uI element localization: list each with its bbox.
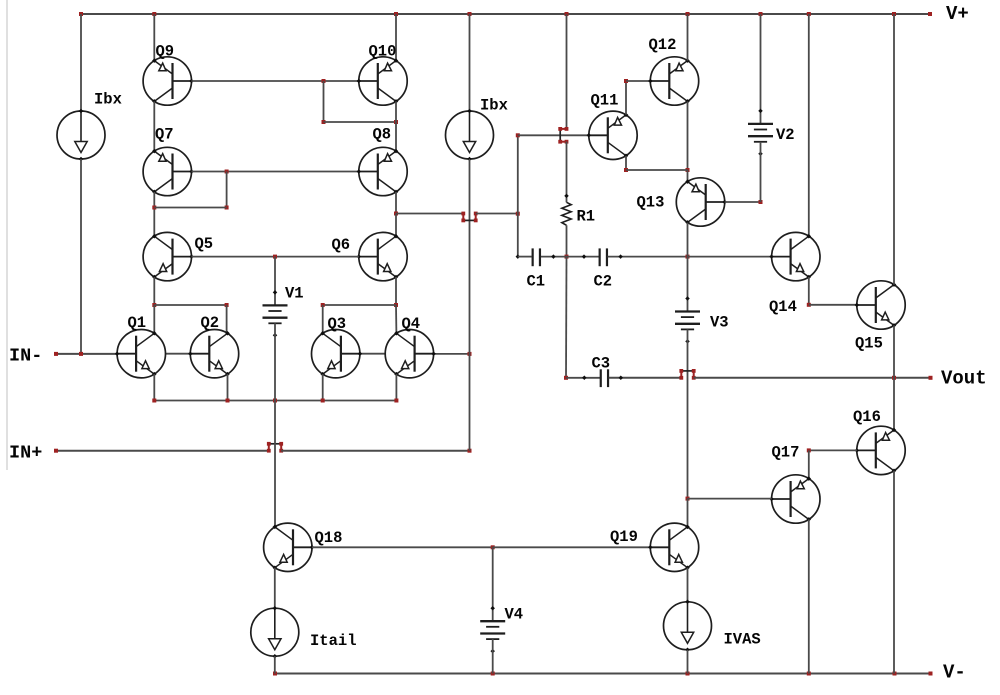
wire rail to V2	[760, 14, 762, 124]
wire Q16 base link	[809, 449, 857, 451]
wire IN- to Q1 base	[56, 353, 117, 355]
junction Q2 collector corner dot	[225, 303, 229, 307]
wire C1 left stub	[518, 256, 532, 258]
label C1	[527, 273, 546, 291]
svg-text:Q19: Q19	[610, 528, 638, 546]
capacitor C3	[601, 369, 608, 387]
svg-text:Ibx: Ibx	[94, 91, 122, 109]
svg-text:Q8: Q8	[373, 126, 392, 144]
wire Q13 collector down	[687, 223, 689, 257]
transistor Q16	[855, 426, 906, 474]
transistor Q11	[587, 111, 638, 159]
wire V3 bottom lead	[687, 329, 689, 498]
transistor Q17	[769, 475, 820, 523]
wire tail column bus to Q18	[274, 401, 276, 528]
wire IN+ column up	[469, 354, 471, 451]
wire mirror to Q7 collector	[154, 207, 226, 209]
transistor Q6	[357, 232, 408, 280]
wire emitter bus	[154, 400, 396, 402]
wire Q3 collector drop	[322, 305, 324, 333]
wire IN+ right segment	[281, 450, 469, 452]
wire Q3 emitter to bus	[322, 374, 324, 400]
label Q3	[328, 315, 347, 333]
transistor Q8	[357, 147, 408, 195]
svg-text:Q15: Q15	[855, 335, 883, 353]
label Q4	[402, 315, 421, 333]
junction Q17 base T dot	[686, 497, 690, 501]
wire Q8 to T	[395, 192, 397, 214]
wire Q7-Q8 base link	[192, 171, 359, 173]
wire V1 top lead	[274, 257, 276, 306]
wire jog to R1	[566, 142, 568, 203]
junction IN- end dot	[54, 352, 58, 356]
wire Q2 collector drop	[226, 305, 228, 333]
capacitor C2	[600, 248, 607, 266]
svg-text:IVAS: IVAS	[724, 631, 761, 649]
battery V3	[675, 296, 700, 343]
emitter bus junction dots	[152, 399, 398, 403]
svg-text:Vout: Vout	[941, 368, 987, 390]
wire Q5Q6 base link left	[192, 256, 276, 258]
wire Q5 to corner	[153, 277, 155, 305]
svg-text:Ibx: Ibx	[480, 97, 508, 115]
wire V2 bottom lead	[760, 142, 762, 202]
junction VAS in T dot	[516, 212, 520, 216]
svg-text:V3: V3	[710, 314, 729, 332]
svg-text:Q18: Q18	[315, 529, 343, 547]
junction V3 top T dot	[686, 255, 690, 259]
wire Q1 to Q2 base link	[166, 353, 191, 355]
wire VAS column down to C1	[517, 214, 519, 257]
junction V4 top T dot	[491, 545, 495, 549]
junction Q7 mirror tap dot	[152, 206, 156, 210]
wire crossover jog over Ibx2 column	[461, 212, 477, 223]
svg-text:V4: V4	[505, 606, 524, 624]
svg-text:C1: C1	[527, 273, 546, 291]
current source Ibx1	[57, 109, 105, 162]
battery V4	[480, 606, 505, 653]
wire C3 left stub	[566, 377, 600, 379]
wire Q4 base to IN+ column	[434, 353, 470, 355]
svg-text:Q16: Q16	[853, 408, 881, 426]
transistor Q4	[385, 330, 436, 378]
junction Vout end dot	[929, 376, 933, 380]
wire to Q13 top	[687, 170, 689, 181]
wire Q16 emitter down to rail	[893, 471, 895, 674]
label V3	[710, 314, 729, 332]
label Q15	[855, 335, 883, 353]
junction drop corner dot	[322, 120, 326, 124]
junction Q14-Q15 corner dot	[807, 303, 811, 307]
transistor Q3	[312, 330, 363, 378]
svg-text:Q10: Q10	[369, 43, 397, 61]
svg-text:V2: V2	[776, 126, 795, 144]
svg-text:V+: V+	[946, 3, 969, 25]
current source Ibx2	[446, 109, 494, 162]
svg-text:Q14: Q14	[769, 298, 797, 316]
svg-text:Itail: Itail	[310, 632, 357, 650]
label Ibx2	[480, 97, 508, 115]
current source Itail	[251, 606, 299, 659]
wire crossover jog R1 column	[558, 127, 568, 144]
wire V4 to Q19 base	[493, 546, 651, 548]
junction mirror corner dot	[225, 206, 229, 210]
svg-text:C3: C3	[592, 355, 611, 373]
wire rail to Q14	[808, 14, 810, 236]
transistor Q15	[855, 281, 906, 329]
svg-text:Q11: Q11	[591, 92, 619, 110]
svg-text:Q12: Q12	[649, 36, 677, 54]
wire Ibx1 bottom to IN- line	[80, 159, 82, 354]
wire crossover jog IN+ over tail column	[267, 442, 283, 453]
wire Q19 emitter to IVAS	[687, 568, 689, 602]
junction C2 left dot	[582, 254, 587, 259]
wire V3 top lead	[687, 257, 689, 312]
junction IN- Ibx1 dot	[79, 352, 83, 356]
wire corner to Q3 collector	[323, 304, 396, 306]
wire IN+ left segment	[56, 450, 269, 452]
wire Q14 to Q15 base	[809, 304, 857, 306]
wire Q14 emitter down	[808, 277, 810, 305]
junction IN+ end dot	[54, 449, 58, 453]
wire Q8 node right segment	[476, 213, 518, 215]
node label Vout	[941, 368, 987, 390]
wire Q9-Q10 base link	[192, 80, 359, 82]
svg-text:Q9: Q9	[156, 43, 175, 61]
label IVAS	[724, 631, 761, 649]
left page border artifact	[6, 0, 8, 470]
label V1	[285, 285, 304, 303]
wire corner to Q1 top	[153, 305, 155, 333]
V- rail wire	[275, 673, 931, 675]
transistor Q19	[648, 523, 699, 571]
node label IN+	[9, 443, 42, 464]
wire Q5Q6 base link right	[275, 256, 359, 258]
label V4	[505, 606, 524, 624]
wire Q13 base to V2	[725, 201, 761, 203]
junction R1 bottom T dot	[565, 255, 569, 259]
junction Q7Q8 base T dot	[225, 170, 229, 174]
wire Q7 to Q5	[153, 192, 155, 236]
wire mirror drop	[226, 172, 228, 208]
svg-text:Q6: Q6	[332, 236, 351, 254]
junction C1 right dot	[551, 254, 556, 259]
wire V3 top to Q14 base	[688, 256, 772, 258]
junction Q10 collector dot	[394, 120, 398, 124]
wire rail to R1 jog	[566, 14, 568, 129]
label Q8	[373, 126, 392, 144]
wire Vout to Q16	[893, 378, 895, 430]
label Q10	[369, 43, 397, 61]
wire Q12 collector down	[687, 101, 689, 170]
wire Q6 to corner	[395, 277, 397, 305]
V- rail junction dots	[273, 672, 933, 676]
resistor R1	[562, 202, 571, 225]
V+ rail junction dots	[79, 12, 932, 16]
svg-text:V-: V-	[943, 662, 966, 684]
junction C3 right dot	[619, 376, 624, 381]
transistor Q2	[188, 330, 239, 378]
wire corner to Q2 collector	[154, 304, 226, 306]
junction Q11 base T dot	[516, 133, 520, 137]
svg-text:C2: C2	[594, 273, 613, 291]
wire C1 to C2	[541, 256, 599, 258]
junction corner Q5-Q1 dot	[152, 303, 156, 307]
junction Q11 collector corner dot	[624, 168, 628, 172]
wire V1 bottom lead	[274, 323, 276, 400]
transistor Q12	[648, 57, 699, 105]
wire C2 to V3 top	[608, 256, 688, 258]
junction R1 top dot	[564, 194, 569, 199]
svg-text:Q1: Q1	[128, 314, 147, 332]
label Q14	[769, 298, 797, 316]
current source IVAS	[664, 600, 712, 653]
wire base link drop	[323, 81, 325, 122]
wire Q10 to Q8	[395, 101, 397, 151]
label Q13	[637, 194, 665, 212]
transistor Q1	[115, 330, 166, 378]
wire Q9 to Q7	[153, 101, 155, 151]
svg-text:IN-: IN-	[9, 346, 42, 367]
label Q11	[591, 92, 619, 110]
wire Q2 emitter to bus	[227, 374, 229, 400]
label Q9	[156, 43, 175, 61]
junction Q9Q10 base T dot	[322, 79, 326, 83]
junction C3 corner dot	[564, 376, 568, 380]
transistor Q10	[357, 57, 408, 105]
label Q7	[155, 126, 174, 144]
label R1	[577, 208, 596, 226]
wire crossover jog Vout over V3 column	[679, 369, 695, 380]
svg-text:Q17: Q17	[772, 444, 800, 462]
node label IN-	[9, 346, 42, 367]
label Q17	[772, 444, 800, 462]
battery V2	[748, 109, 773, 156]
wire T to Q6	[395, 214, 397, 237]
transistor Q9	[143, 57, 194, 105]
junction Q3Q4 base node dot	[468, 352, 472, 356]
junction C2 right dot	[618, 254, 623, 259]
wire Q1 emitter to bus	[153, 374, 155, 400]
junction Q12Q11 collector T dot	[686, 168, 690, 172]
wire Ibx2 bottom	[469, 159, 471, 354]
node label V-	[943, 662, 966, 684]
wire Q11 collector link	[626, 169, 688, 171]
wire Q8 node left segment	[396, 213, 463, 215]
transistor Q5	[143, 232, 194, 280]
svg-text:Q4: Q4	[402, 315, 421, 333]
junction V2 bottom end dot	[759, 200, 763, 204]
label Q19	[610, 528, 638, 546]
wire Ibx1 top	[80, 14, 82, 111]
capacitor C1	[533, 248, 540, 266]
svg-text:R1: R1	[577, 208, 596, 226]
wire Q11 collector down	[625, 156, 627, 170]
label Q5	[195, 235, 214, 253]
wire VAS column up	[517, 135, 519, 213]
wire IVAS to rail	[687, 650, 689, 674]
transistor Q13	[676, 178, 727, 226]
wire Q17 base link	[688, 498, 772, 500]
wire Q17 emitter down to rail	[808, 519, 810, 673]
transistor Q18	[264, 523, 315, 571]
wire Q18 to Itail	[274, 568, 276, 609]
wire R1 column down to Vout line	[565, 257, 568, 378]
wire Q11 emitter up	[625, 81, 627, 115]
svg-text:Q5: Q5	[195, 235, 214, 253]
svg-text:Q3: Q3	[328, 315, 347, 333]
label Q16	[853, 408, 881, 426]
wire Q15 emitter to Vout	[893, 325, 895, 377]
wire Itail to rail	[274, 656, 276, 673]
label Q18	[315, 529, 343, 547]
V+ rail wire	[81, 13, 930, 15]
svg-text:Q13: Q13	[637, 194, 665, 212]
svg-text:Q7: Q7	[155, 126, 174, 144]
node label V+	[946, 3, 969, 25]
junction C1 corner dot	[516, 254, 521, 259]
wire Q17 collector up	[808, 450, 810, 478]
wire R1 bottom	[566, 225, 568, 256]
label C2	[594, 273, 613, 291]
svg-text:Q2: Q2	[201, 314, 220, 332]
wire Vout right segment	[694, 377, 931, 379]
wire Q4 emitter to bus	[395, 374, 397, 400]
battery V1	[263, 290, 288, 337]
label Q6	[332, 236, 351, 254]
wire corner to Q4 top	[395, 305, 397, 333]
wire V4 bottom lead	[492, 639, 494, 673]
junction Q16 base corner dot	[807, 448, 811, 452]
wire V4 top lead	[492, 547, 494, 621]
junction C3 left dot	[582, 376, 587, 381]
wire Q3 to Q4 base link	[360, 353, 385, 355]
wire Q18 base to V4	[312, 546, 493, 548]
junction Vout Q15Q16 T dot	[892, 376, 896, 380]
svg-text:IN+: IN+	[9, 443, 42, 464]
label Q2	[201, 314, 220, 332]
transistor Q14	[769, 232, 820, 280]
transistor Q7	[143, 147, 194, 195]
label V2	[776, 126, 795, 144]
wire V3 column to Q19	[687, 499, 689, 527]
svg-text:V1: V1	[285, 285, 304, 303]
wire rail to Q10	[395, 14, 397, 61]
junction V1 top T dot	[273, 255, 277, 259]
label Itail	[310, 632, 357, 650]
junction Q8 collector T dot	[394, 212, 398, 216]
label Q1	[128, 314, 147, 332]
wire Q11 base line	[518, 134, 589, 136]
junction Q12 base corner dot	[624, 79, 628, 83]
label Q12	[649, 36, 677, 54]
wire rail to Ibx2	[469, 14, 471, 111]
wire drop to Q10 collector	[324, 121, 397, 123]
wire rail to Q9	[153, 14, 155, 61]
wire Q12 base	[626, 80, 650, 82]
wire rail to Q15	[893, 14, 895, 285]
wire C3 to jog	[609, 377, 682, 379]
junction Q6-Q4 corner dot	[394, 303, 398, 307]
label C3	[592, 355, 611, 373]
label Ibx1	[94, 91, 122, 109]
wire rail to Q12	[687, 14, 689, 61]
junction Q3 collector corner dot	[321, 303, 325, 307]
junction IN+ corner dot	[468, 449, 472, 453]
